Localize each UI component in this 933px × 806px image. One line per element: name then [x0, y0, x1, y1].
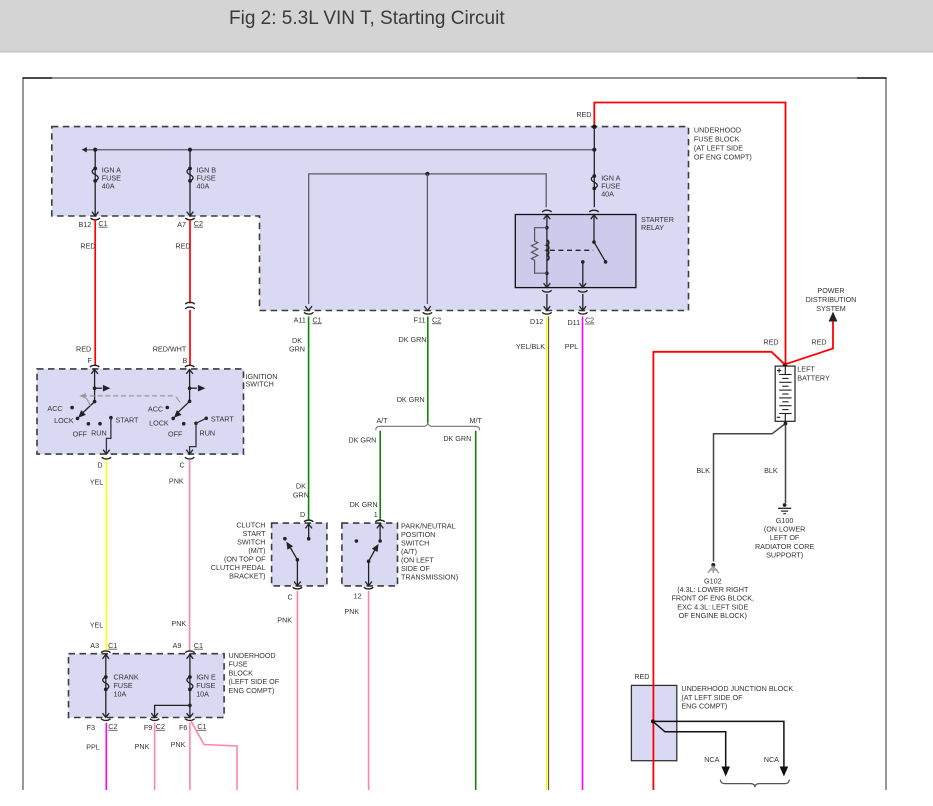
wire PNK F6 down: [189, 723, 191, 790]
lower fuse block internals: [87, 641, 216, 732]
svg-text:RELAY: RELAY: [641, 223, 664, 232]
wire DK GRN A/T branch: [379, 431, 381, 520]
svg-text:F3: F3: [87, 723, 95, 732]
svg-text:C2: C2: [432, 315, 441, 324]
svg-text:G100: G100: [776, 516, 794, 525]
svg-text:OF ENG COMPT): OF ENG COMPT): [694, 153, 752, 162]
wire PNK clutch C down: [296, 591, 298, 790]
svg-text:C1: C1: [98, 219, 107, 228]
svg-text:PNK: PNK: [169, 477, 184, 486]
relay pin connector caps: [542, 210, 551, 212]
svg-text:UNDERHOOD JUNCTION BLOCK: UNDERHOOD JUNCTION BLOCK: [681, 684, 793, 693]
wire DK GRN M/T branch: [475, 431, 477, 790]
battery B1 left battery: [775, 365, 830, 424]
svg-text:D11: D11: [567, 318, 580, 327]
svg-text:C1: C1: [197, 722, 206, 731]
svg-text:FUSE: FUSE: [229, 660, 248, 669]
svg-text:BLK: BLK: [764, 466, 778, 475]
svg-text:DK GRN: DK GRN: [399, 335, 427, 344]
svg-text:POWER: POWER: [817, 286, 844, 295]
svg-text:PNK: PNK: [171, 740, 186, 749]
connector F6 C1: [185, 719, 194, 721]
svg-text:GRN: GRN: [289, 345, 305, 354]
svg-text:C2: C2: [156, 722, 165, 731]
wire PPL F3 down: [105, 723, 107, 790]
ground G100: [755, 503, 814, 559]
wire RED B12 to ignition F: [94, 220, 96, 366]
svg-text:RED/WHT: RED/WHT: [153, 345, 187, 354]
svg-text:OFF: OFF: [168, 429, 183, 438]
connector F3 C2: [101, 719, 110, 721]
relay pin leads to block edge: [546, 294, 548, 311]
svg-text:RED: RED: [763, 337, 778, 346]
ground G102: [672, 563, 755, 620]
svg-text:C2: C2: [194, 219, 203, 228]
A/T M/T split brace: [376, 423, 480, 430]
clutch start switch internals: [211, 510, 314, 602]
connector B12 C1: [91, 218, 100, 220]
wire BLK battery to G100: [785, 424, 787, 504]
connector F9 C2: [150, 719, 159, 721]
fuse IGN E 10A: [189, 654, 191, 718]
svg-text:UNDERHOOD: UNDERHOOD: [694, 126, 741, 135]
svg-text:LOCK: LOCK: [149, 419, 169, 428]
svg-text:PNK: PNK: [171, 619, 186, 628]
ignition switch internals: [47, 356, 234, 469]
svg-text:A9: A9: [173, 641, 182, 650]
node junction dots rail1: [93, 148, 97, 152]
svg-text:RED: RED: [576, 110, 591, 119]
header bar: [0, 0, 933, 51]
switch 1 pole: [94, 369, 96, 402]
svg-text:GRN: GRN: [293, 491, 309, 500]
connector A3 C1: [101, 651, 110, 653]
svg-text:OF ENGINE BLOCK): OF ENGINE BLOCK): [679, 611, 747, 620]
wire PNK F9 down: [154, 723, 156, 790]
clutch start switch block: [272, 523, 327, 586]
wire YEL ignition D to crank fuse: [105, 460, 107, 652]
park/neutral position switch internals: [354, 510, 459, 601]
svg-text:DK GRN: DK GRN: [397, 395, 425, 404]
connector C: [185, 457, 194, 459]
svg-text:SYSTEM: SYSTEM: [816, 304, 846, 313]
starter relay box: [515, 215, 636, 288]
underhood fuse block (top): [52, 127, 689, 311]
svg-text:NCA: NCA: [764, 755, 779, 764]
svg-text:BATTERY: BATTERY: [797, 374, 830, 383]
svg-text:A11: A11: [294, 316, 306, 325]
svg-text:OFF: OFF: [73, 430, 88, 439]
wire break symbol on RED/WHT: [185, 302, 194, 304]
svg-text:C1: C1: [194, 641, 203, 650]
svg-text:1: 1: [374, 510, 378, 519]
svg-text:A/T: A/T: [377, 416, 389, 425]
connector A11 C1: [304, 312, 313, 314]
wire DK GRN F11 to A/T-M/T split: [427, 317, 429, 424]
svg-text:40A: 40A: [197, 182, 210, 191]
svg-text:10A: 10A: [114, 689, 127, 698]
svg-text:ENG COMPT): ENG COMPT): [229, 686, 275, 695]
switch 1 position contacts: [70, 406, 74, 410]
svg-text:C: C: [179, 460, 184, 469]
svg-text:DK GRN: DK GRN: [443, 434, 471, 443]
svg-text:C1: C1: [312, 315, 321, 324]
wire DK GRN A11 to clutch switch: [308, 317, 310, 520]
svg-text:Fig 2: 5.3L VIN T, Starting Ci: Fig 2: 5.3L VIN T, Starting Circuit: [229, 8, 505, 29]
relay bottom pin cups: [542, 290, 551, 292]
svg-text:ENG COMPT): ENG COMPT): [681, 702, 727, 711]
ignition switch block: [37, 369, 244, 454]
connector D: [102, 457, 111, 459]
switch 2 START-RUN link and output: [190, 418, 207, 454]
svg-text:RUN: RUN: [91, 429, 107, 438]
svg-text:LOCK: LOCK: [54, 416, 74, 425]
svg-text:RED: RED: [634, 672, 649, 681]
svg-text:DK GRN: DK GRN: [350, 500, 378, 509]
svg-text:LEFT OF: LEFT OF: [770, 533, 800, 542]
connector A9 C1: [185, 651, 194, 653]
svg-text:BRACKET): BRACKET): [229, 571, 265, 580]
starter relay internals: [531, 210, 607, 310]
junction to F9: [188, 704, 192, 708]
svg-text:NCA: NCA: [704, 755, 719, 764]
wire RED to junction block: [653, 352, 784, 790]
wire YEL/BLK D12 down: [546, 317, 548, 791]
svg-text:RUN: RUN: [200, 428, 216, 437]
switch 1 START output: [106, 418, 111, 454]
svg-text:PNK: PNK: [277, 615, 292, 624]
svg-text:BLOCK: BLOCK: [229, 668, 254, 677]
bus rail 2 in fuse block: [309, 174, 547, 304]
svg-text:PNK: PNK: [135, 742, 150, 751]
switch 2 pole: [189, 369, 191, 401]
svg-text:PNK: PNK: [344, 607, 359, 616]
svg-text:D: D: [300, 510, 305, 519]
wire PNK F6 branch right: [191, 721, 237, 790]
bus rail 1 in fuse block: [83, 149, 595, 151]
svg-text:F9: F9: [144, 723, 152, 732]
coil bumps: [547, 240, 549, 260]
connector D12: [542, 312, 551, 314]
svg-text:F6: F6: [179, 723, 187, 732]
svg-text:C1: C1: [108, 641, 117, 650]
svg-text:DISTRIBUTION: DISTRIBUTION: [806, 295, 857, 304]
wire PPL D11 down: [582, 317, 584, 791]
svg-text:(LEFT SIDE OF: (LEFT SIDE OF: [229, 677, 280, 686]
underhood junction block: [631, 685, 676, 760]
connector F: [90, 365, 99, 367]
wire RED power distribution: [785, 322, 833, 365]
svg-text:40A: 40A: [601, 190, 614, 199]
svg-text:DK GRN: DK GRN: [348, 436, 376, 445]
relay mechanical dashed link: [550, 249, 593, 251]
mechanical dashed link ignition: [82, 395, 173, 397]
svg-text:40A: 40A: [102, 182, 115, 191]
svg-text:FUSE BLOCK: FUSE BLOCK: [694, 135, 740, 144]
svg-text:B12: B12: [79, 220, 92, 229]
junction block internals: [634, 672, 789, 787]
wire RED battery feed (top): [594, 103, 785, 365]
resistor (relay): [531, 228, 547, 274]
svg-text:START: START: [116, 415, 140, 424]
relay coil branch: [546, 215, 548, 288]
svg-text:(AT LEFT SIDE OF: (AT LEFT SIDE OF: [681, 693, 743, 702]
wire PNK ignition C to ign E fuse: [189, 460, 191, 652]
fuse IGN A 40A (left): [92, 150, 121, 216]
svg-text:START: START: [211, 414, 235, 423]
svg-text:BLK: BLK: [696, 466, 710, 475]
svg-text:M/T: M/T: [470, 416, 483, 425]
svg-text:D: D: [97, 460, 102, 469]
svg-text:C: C: [287, 593, 292, 602]
svg-text:PPL: PPL: [86, 743, 100, 752]
svg-text:D12: D12: [530, 317, 543, 326]
wire RED/WHT A7 to ignition B: [189, 220, 191, 366]
svg-text:10A: 10A: [196, 689, 209, 698]
svg-text:SWITCH: SWITCH: [246, 379, 274, 388]
svg-text:LEFT: LEFT: [797, 365, 815, 374]
relay switch branch: [593, 215, 595, 243]
underhood fuse block (lower): [69, 654, 225, 718]
fuse IGN A 40A (right): [591, 127, 620, 208]
svg-text:YEL: YEL: [90, 621, 104, 630]
svg-text:ACC: ACC: [148, 404, 163, 413]
wire PNK park 12 down: [368, 591, 370, 790]
svg-text:B: B: [183, 356, 188, 365]
svg-text:F: F: [87, 356, 92, 365]
svg-text:ACC: ACC: [47, 404, 62, 413]
connector D11 C2: [578, 312, 587, 314]
svg-text:C2: C2: [585, 316, 594, 325]
svg-text:RED: RED: [811, 337, 826, 346]
fuse CRANK 10A: [105, 654, 107, 718]
svg-text:C2: C2: [108, 722, 117, 731]
svg-text:YEL/BLK: YEL/BLK: [516, 342, 545, 351]
park/neutral position switch block: [342, 523, 398, 586]
svg-text:PPL: PPL: [565, 342, 579, 351]
svg-text:12: 12: [354, 592, 362, 601]
svg-text:UNDERHOOD: UNDERHOOD: [229, 651, 276, 660]
svg-text:A3: A3: [90, 641, 99, 650]
svg-text:F11: F11: [414, 316, 426, 325]
svg-text:TRANSMISSION): TRANSMISSION): [401, 573, 458, 582]
connector F11 C2: [423, 312, 432, 314]
svg-text:A7: A7: [177, 220, 186, 229]
svg-text:DK: DK: [296, 481, 306, 490]
svg-text:YEL: YEL: [90, 478, 104, 487]
svg-text:(AT LEFT SIDE: (AT LEFT SIDE: [694, 144, 743, 153]
svg-text:RED: RED: [175, 242, 190, 251]
svg-text:RED: RED: [76, 345, 91, 354]
connector B: [185, 365, 194, 367]
fuse IGN B 40A: [187, 150, 217, 216]
connector A7 C2: [185, 218, 194, 220]
svg-text:RED: RED: [80, 242, 95, 251]
wire BLK battery to G102: [714, 424, 786, 562]
svg-text:SUPPORT): SUPPORT): [766, 550, 803, 559]
switch 2 position contacts: [166, 406, 170, 410]
